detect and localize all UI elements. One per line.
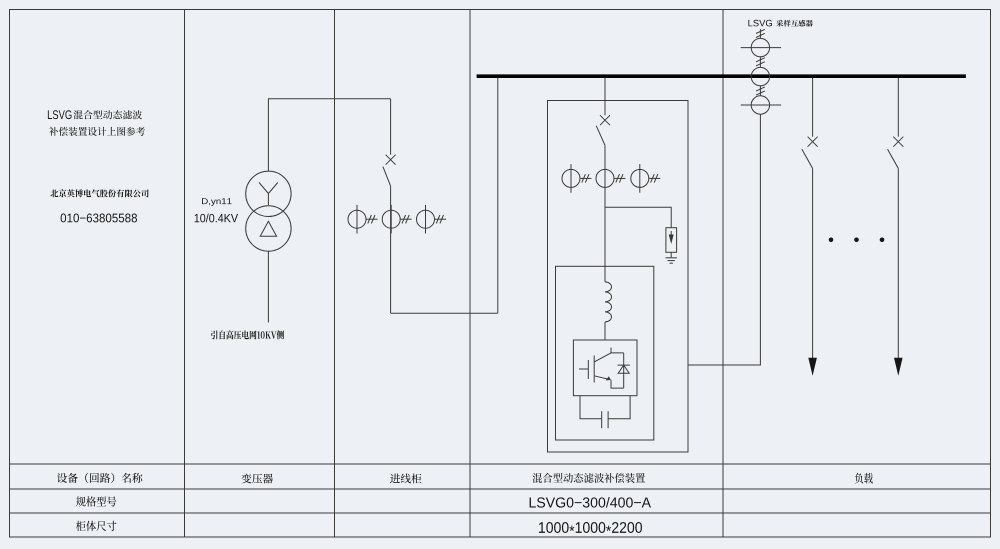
IGBT Q1 gate bar <box>587 360 589 379</box>
table label transformer <box>242 474 273 484</box>
wire transformer to HV grid <box>267 251 269 322</box>
wire capacitor left stub <box>580 396 602 419</box>
table label equipment name <box>57 473 143 483</box>
transformer delta symbol <box>260 221 276 236</box>
current transformer CT5 <box>596 169 614 187</box>
company name text <box>50 189 148 197</box>
table row line 3 <box>10 512 991 514</box>
diode D1 <box>618 353 630 388</box>
IGBT module box <box>573 340 637 396</box>
wire arrester branch <box>605 207 671 228</box>
wire device feeder <box>604 145 606 282</box>
sampling CT PT1 crossbar <box>741 47 781 49</box>
title text line1 <box>73 110 141 119</box>
IGBT Q1 gate lead <box>579 368 588 370</box>
device enclosure box <box>548 101 689 453</box>
breaker QF3 contact cross <box>808 137 818 147</box>
breaker QF3 blade <box>802 149 813 168</box>
wire device entry <box>604 101 606 116</box>
phone number text <box>61 214 137 223</box>
main busbar <box>477 74 966 78</box>
title text line2 <box>49 127 145 136</box>
wire stub <box>759 57 761 68</box>
breaker QF2 blade <box>596 126 605 146</box>
table row line 1 <box>10 463 991 465</box>
wire incoming feeder <box>390 186 392 313</box>
table label spec model <box>76 496 116 506</box>
transformer T1 secondary winding <box>246 206 291 251</box>
table label device name <box>532 473 645 483</box>
inner module box <box>556 266 654 440</box>
table label incoming cabinet <box>390 473 422 483</box>
wire capacitor right stub <box>608 396 630 419</box>
sampling CT PT1 <box>751 38 769 56</box>
breaker QF1 contact cross <box>386 155 396 165</box>
section divider line x=470 <box>469 10 471 538</box>
IGBT Q1 body bar <box>593 356 595 383</box>
wire stub 2 <box>759 86 761 96</box>
IGBT Q1 collector <box>594 348 624 362</box>
section divider line x=184.5 <box>184 10 186 538</box>
current transformer CT4 <box>562 169 580 187</box>
breaker QF4 contact cross <box>893 137 903 147</box>
load arrow 1 <box>808 358 817 376</box>
label LSVG <box>748 20 772 27</box>
wire inductor to IGBT <box>604 322 606 340</box>
surge arrester arrow <box>669 235 674 245</box>
transformer wye symbol <box>259 183 278 206</box>
wire incoming to busbar horizontal <box>391 312 498 314</box>
wire transformer riser <box>268 99 390 171</box>
sampling CT ticks 1 <box>756 29 765 33</box>
current transformer CT3 <box>417 210 435 228</box>
sampling CT PT3 <box>751 96 769 114</box>
title text LSVG <box>48 110 72 119</box>
sampling CT PT2 <box>751 67 769 85</box>
wire load feeder 2 <box>897 168 899 358</box>
wire incoming feeder drop <box>390 99 392 155</box>
sampling CT stub top <box>759 29 761 38</box>
label D,yn11 <box>202 198 232 206</box>
wire arrester to ground <box>670 252 672 257</box>
table label cabinet size <box>76 521 116 531</box>
ellipsis dots <box>829 238 834 243</box>
sampling CT ticks 3 <box>756 87 765 91</box>
wire load feeder 1 drop <box>812 78 814 137</box>
label HV grid 10KV source <box>211 330 284 339</box>
surge arrester FV <box>666 228 677 253</box>
section divider line x=334.5 <box>334 10 336 538</box>
sampling CT PT3 crossbar <box>741 104 781 106</box>
current transformer CT6 <box>631 169 649 187</box>
label sampling transformer <box>776 20 813 27</box>
table value LSVG0-300/400-A <box>530 497 651 508</box>
wire sampling to device <box>688 114 760 365</box>
transformer T1 primary winding <box>246 171 291 216</box>
table row line 2 <box>10 488 991 490</box>
wire load feeder 2 drop <box>897 78 899 137</box>
current transformer CT1 <box>348 210 366 228</box>
sampling CT ticks 2 <box>756 58 765 62</box>
table label load <box>855 473 873 484</box>
section divider line x=723 <box>722 10 724 538</box>
ground symbol <box>666 257 678 259</box>
inductor L1 <box>605 282 612 322</box>
breaker QF4 blade <box>888 149 899 168</box>
breaker QF1 blade <box>383 167 391 187</box>
wire device riser from busbar <box>604 78 606 101</box>
breaker QF2 contact cross <box>600 115 610 125</box>
table value 1000*1000*2200 <box>539 522 642 533</box>
capacitor C1 <box>601 411 603 428</box>
wire riser to busbar <box>497 78 499 314</box>
load arrow 2 <box>894 358 903 376</box>
current transformer CT2 <box>382 210 400 228</box>
IGBT Q1 emitter <box>594 376 624 388</box>
label 10/0.4KV <box>195 213 238 222</box>
wire load feeder 1 <box>812 168 814 358</box>
